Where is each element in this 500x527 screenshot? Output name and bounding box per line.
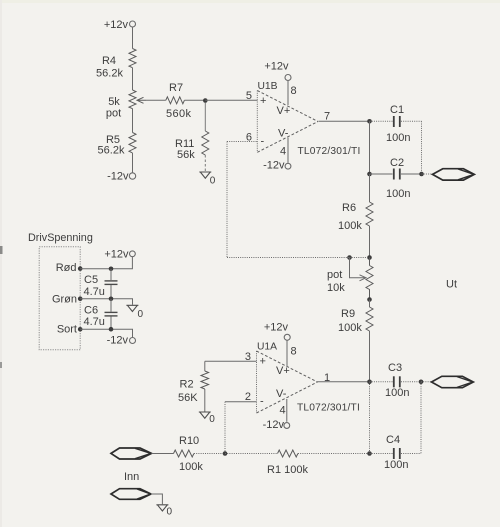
wire R1 to C4 node (dotted) [298, 453, 370, 455]
svg-text:-12v: -12v [107, 335, 129, 347]
svg-text:56k: 56k [177, 149, 195, 161]
label Rød [56, 262, 77, 274]
wire C2 to out node [401, 173, 422, 175]
svg-text:Rød: Rød [56, 262, 77, 274]
svg-text:R6: R6 [342, 202, 356, 214]
svg-text:8: 8 [291, 346, 297, 358]
wire U1B out down to C2 row [369, 121, 371, 174]
svg-text:5: 5 [246, 90, 252, 102]
wire Rød to +12v [80, 257, 132, 269]
svg-text:100k: 100k [338, 220, 362, 232]
wire C3 right node down (dotted) [420, 382, 422, 454]
wire node to U1B pin 5 [205, 99, 257, 101]
label Inn [124, 471, 139, 483]
svg-text:+: + [260, 356, 266, 368]
svg-text:pot: pot [106, 108, 121, 120]
potentiometer 5k pot [106, 90, 146, 120]
wire R10 to node (dotted) [194, 453, 225, 455]
power terminal +12v (top) [104, 19, 136, 31]
svg-text:-: - [261, 136, 265, 148]
wire connector to R10 [152, 453, 174, 455]
power terminal -12v (top) [107, 171, 136, 183]
resistor R4 56.2k [96, 49, 136, 80]
power terminal +12v (U1A) [264, 322, 290, 341]
output connector (lower) [432, 376, 474, 387]
svg-text:4.7u: 4.7u [84, 286, 105, 298]
wire pot wiper to R7 [146, 99, 166, 101]
svg-text:0: 0 [167, 507, 173, 518]
capacitor C4 100n [384, 434, 408, 471]
node R6/pot junction [367, 255, 372, 260]
pin 8 label [291, 85, 297, 97]
svg-text:100n: 100n [386, 132, 410, 144]
svg-text:+12v: +12v [264, 322, 289, 334]
wire out node down (dotted) [369, 382, 371, 454]
svg-text:+: + [260, 95, 266, 107]
svg-text:+12v: +12v [104, 19, 129, 31]
svg-text:100k: 100k [338, 322, 362, 334]
wire C1 to corner (dotted) [401, 120, 422, 122]
resistor R9 100k [338, 307, 373, 334]
svg-text:V-: V- [276, 388, 287, 400]
svg-text:4.7u: 4.7u [84, 316, 105, 328]
wire U1A output pin1 [318, 381, 370, 383]
svg-text:100k: 100k [179, 461, 203, 473]
resistor R5 56.2k [98, 133, 136, 157]
svg-text:5k: 5k [108, 96, 120, 108]
svg-text:DrivSpenning: DrivSpenning [28, 232, 93, 244]
node C2 row left junction [367, 172, 372, 177]
power terminal +12v (U1B) [264, 61, 291, 81]
resistor R7 560k [166, 82, 192, 120]
wire R4 to pot [132, 68, 134, 90]
svg-text:TL072/301/TI: TL072/301/TI [297, 403, 360, 414]
svg-text:C6: C6 [84, 305, 98, 317]
wire R11 to ground (dashed) [204, 155, 206, 172]
DrivSpenning box [39, 247, 80, 350]
node R1/C4 junction [367, 451, 372, 456]
svg-text:V+: V+ [277, 105, 291, 117]
wire R6 to pot node [369, 226, 371, 258]
wire R9 to U1A out node [369, 331, 371, 382]
capacitor C2 100n [386, 157, 410, 200]
wire between feedback nodes (dotted) [350, 257, 370, 259]
svg-text:C1: C1 [390, 104, 404, 116]
wire U1B output pin7 [319, 120, 370, 122]
label Sort [57, 324, 77, 336]
wire U1A pin2 [225, 401, 257, 403]
wire +12v to R4 [132, 27, 134, 49]
node R10/R1/pin2 junction [223, 451, 228, 456]
svg-text:0: 0 [210, 176, 216, 187]
pin 1 label [324, 372, 330, 384]
wire to C1 (dotted) [370, 120, 393, 122]
node C6 bottom junction [109, 327, 114, 332]
part value TL072/301/TI (U1A) [297, 403, 360, 414]
power terminal +12v (Driv) [104, 248, 135, 260]
svg-text:U1B: U1B [258, 81, 278, 92]
wire R5 to -12v [132, 153, 134, 173]
svg-text:100n: 100n [386, 188, 410, 200]
power terminal -12v (U1B) [263, 160, 291, 172]
svg-text:2: 2 [245, 391, 251, 403]
resistor R2 56K [178, 371, 209, 404]
wire Sort to -12v [80, 329, 132, 337]
node Rød terminal [78, 266, 83, 271]
svg-text:C4: C4 [386, 434, 400, 446]
node Grøn terminal [78, 296, 83, 301]
svg-text:-: - [260, 396, 264, 408]
svg-text:Inn: Inn [124, 471, 139, 483]
wire node to C4 (dotted) [370, 453, 393, 455]
svg-text:V-: V- [278, 128, 289, 140]
resistor R6 100k [338, 202, 373, 232]
resistor R10 100k [174, 435, 204, 473]
ground 0 (R11) [199, 172, 216, 187]
ground 0 (Driv) [126, 305, 143, 320]
node C5/C6 junction [109, 297, 114, 302]
wire feedback vertical (dotted) [226, 142, 228, 258]
label Grøn [52, 293, 77, 305]
node C3 right junction [419, 380, 424, 385]
capacitor C6 4.7u [84, 299, 118, 329]
svg-text:-12v: -12v [263, 419, 285, 431]
svg-text:7: 7 [324, 111, 330, 123]
svg-text:U1A: U1A [257, 342, 277, 353]
wire pot node to R9 [369, 300, 371, 308]
svg-text:8: 8 [291, 85, 297, 97]
node feedback/wiper junction [347, 255, 352, 260]
wire C4 to corner (dotted) [401, 453, 421, 455]
svg-text:4: 4 [280, 146, 286, 158]
svg-text:C3: C3 [388, 362, 402, 374]
part value TL072/301/TI (U1B) [298, 146, 361, 157]
svg-text:R10: R10 [179, 435, 199, 447]
input connector (ground ref) [111, 489, 151, 500]
svg-text:pot: pot [327, 269, 342, 281]
node C5 top junction [109, 267, 114, 272]
wire pot to R5 [132, 109, 134, 133]
wire down to R2 [204, 361, 206, 371]
pin 4 label [280, 405, 286, 417]
svg-text:6: 6 [246, 132, 252, 144]
capacitor C1 100n [386, 104, 410, 144]
pin 3 label [245, 351, 251, 363]
power terminal -12v (Driv) [107, 335, 136, 347]
svg-text:+12v: +12v [264, 61, 289, 73]
ground 0 (input) [156, 505, 172, 518]
svg-text:560k: 560k [166, 108, 192, 120]
svg-text:C5: C5 [84, 274, 98, 286]
label DrivSpenning [28, 232, 93, 244]
wire R2 to ground [204, 389, 206, 412]
svg-text:R9: R9 [341, 308, 355, 320]
capacitor C5 4.7u [84, 269, 118, 299]
wire corner down to C2 node (dotted) [421, 121, 423, 174]
wire wiper down and to pot arrow [350, 258, 367, 281]
pin 8 label [291, 346, 297, 358]
wire C2 row left [370, 173, 393, 175]
input connector (Inn) [111, 448, 152, 459]
wire connector to ground [151, 494, 162, 504]
svg-text:TL072/301/TI: TL072/301/TI [298, 146, 361, 157]
pin 6 label [246, 132, 252, 144]
svg-text:0: 0 [209, 414, 215, 425]
wire Grøn to ground [80, 299, 132, 305]
svg-text:-12v: -12v [107, 171, 129, 183]
wire feedback horizontal (dotted) [227, 257, 350, 259]
node R7/R11/pin5 junction [203, 98, 208, 103]
svg-text:Grøn: Grøn [52, 293, 77, 305]
resistor R1 100k [267, 450, 308, 476]
wire U1A pin3 to R2 [205, 360, 257, 362]
ground 0 (R2) [199, 412, 216, 425]
output connector (upper) [433, 169, 475, 180]
wire pin2 down to input node (dotted) [224, 402, 226, 454]
svg-text:0: 0 [138, 309, 144, 320]
svg-text:+12v: +12v [104, 248, 129, 260]
potentiometer pot 10k [327, 258, 373, 300]
wire to C3 (dotted) [370, 381, 393, 383]
op-amp U1B [257, 81, 318, 152]
svg-text:Sort: Sort [57, 324, 77, 336]
pin 2 label [245, 391, 251, 403]
svg-text:-12v: -12v [263, 160, 285, 172]
wire C3 to out node (dotted) [401, 381, 421, 383]
svg-text:4: 4 [280, 405, 286, 417]
wire U1B V- to -12v [287, 138, 289, 163]
wire node to output connector [422, 173, 433, 175]
svg-text:R2: R2 [180, 379, 194, 391]
wire C2 node down to R6 [369, 174, 371, 202]
wire U1B V+ to +12v [287, 81, 289, 105]
svg-text:100n: 100n [385, 387, 409, 399]
svg-text:100n: 100n [384, 459, 408, 471]
svg-text:R7: R7 [169, 82, 183, 94]
wire feedback pin6 stub (dotted) [227, 141, 258, 143]
wire node to R1 (dotted) [225, 453, 278, 455]
node C2 right junction [419, 172, 424, 177]
wire U1A V- to -12v [286, 399, 288, 422]
svg-text:C2: C2 [390, 157, 404, 169]
wire node to output connector [421, 381, 432, 383]
node U1B out junction [367, 119, 372, 124]
svg-text:Ut: Ut [446, 279, 457, 291]
pin 5 label [246, 90, 252, 102]
svg-text:R4: R4 [102, 55, 116, 67]
wire U1A V+ to +12v [286, 340, 288, 366]
svg-text:56.2k: 56.2k [98, 145, 125, 157]
node U1A out junction [367, 380, 372, 385]
wire node down to R11 [204, 103, 206, 132]
svg-text:56K: 56K [178, 392, 198, 404]
svg-text:V+: V+ [276, 365, 290, 377]
capacitor C3 100n [385, 362, 409, 399]
pin 4 label [280, 146, 286, 158]
svg-text:R1 100k: R1 100k [267, 464, 308, 476]
wire R7 to node [184, 99, 205, 101]
node Sort terminal [78, 327, 83, 332]
power terminal -12v (U1A) [263, 419, 290, 431]
net label Ut [446, 279, 457, 291]
op-amp U1A [257, 342, 318, 414]
resistor R11 56k [175, 131, 209, 161]
node pot/R9 junction [367, 297, 372, 302]
svg-text:56.2k: 56.2k [96, 67, 123, 79]
svg-text:10k: 10k [327, 282, 345, 294]
pin 7 label [324, 111, 330, 123]
